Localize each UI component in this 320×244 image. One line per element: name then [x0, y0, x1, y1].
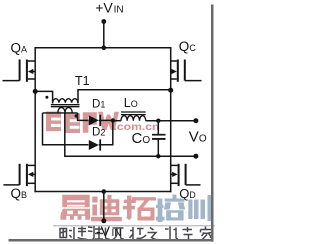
wire top rail [35, 47, 171, 49]
node Co top tap [156, 119, 160, 123]
node D1/D2 junction [111, 118, 115, 122]
frame shadow bottom [9, 239, 214, 242]
node +VIN terminal [101, 19, 106, 24]
watermark divider line (gray) [53, 225, 215, 226]
wire left leg (QA drain to QB source) [34, 48, 36, 192]
diode D1 [89, 115, 113, 126]
svg-text:IN: IN [112, 228, 122, 239]
node Co bottom tap [156, 154, 160, 158]
svg-text:+V: +V [95, 0, 113, 16]
node right leg / primary junction [168, 88, 173, 93]
node Vo+ terminal [193, 118, 198, 123]
transistor QC [171, 60, 202, 82]
node top rail junction [102, 45, 107, 50]
wire secondary left to D2 [43, 113, 89, 145]
T1 primary winding [53, 99, 78, 103]
transistor QA [3, 60, 36, 82]
watermark char xun (blue) [188, 195, 212, 221]
svg-text:D1: D1 [92, 99, 105, 111]
node Vo- terminal [193, 154, 198, 159]
T1 secondary winding [58, 107, 72, 113]
label -VIN [96, 223, 122, 239]
label +VIN [95, 0, 123, 16]
T1 secondary baseline [43, 112, 78, 114]
transistor QD [171, 164, 201, 186]
transistor QB [3, 164, 35, 186]
T1 core [51, 104, 80, 106]
svg-text:-V: -V [96, 223, 111, 239]
wire Lo to Vo+ [146, 120, 196, 122]
watermark char di (red) [91, 195, 122, 222]
svg-text:D2: D2 [92, 127, 105, 139]
wire bottom rail [35, 191, 171, 193]
capacitor Co [152, 121, 166, 157]
inductor Lo [121, 112, 146, 121]
watermark char yi (red) [61, 195, 91, 220]
wire center tap to Vo- [65, 113, 196, 156]
watermark EEPW.com.cn (center, red) [46, 112, 160, 134]
wire -VIN stub [103, 192, 105, 221]
wire primary left lead [35, 91, 52, 102]
watermark text she-pin-he-wu-xian-she-ji-zhuan-jia (gray) [60, 226, 213, 240]
watermark char pei (blue) [156, 195, 185, 222]
T1 secondary phase dot [75, 114, 78, 117]
wire D2 cathode up to node [99, 120, 113, 144]
svg-text:IN: IN [114, 5, 124, 16]
frame shadow right [211, 5, 214, 242]
wire +VIN stub [103, 22, 105, 48]
node -VIN terminal [101, 218, 106, 223]
node bottom rail junction [102, 189, 107, 194]
transformer T1 [43, 99, 80, 113]
T1 primary phase dot [45, 96, 48, 99]
wire secondary right to D1 [78, 113, 89, 121]
wire rectified node to Lo [113, 120, 121, 122]
node left leg / primary junction [33, 89, 38, 94]
wire primary right lead [78, 90, 171, 103]
wire right leg (QC drain to QD source) [170, 48, 172, 192]
watermark char tuo (red) [123, 196, 156, 221]
diode D2 [89, 120, 113, 150]
svg-text:T1: T1 [75, 74, 90, 88]
svg-text:LO: LO [124, 96, 138, 110]
